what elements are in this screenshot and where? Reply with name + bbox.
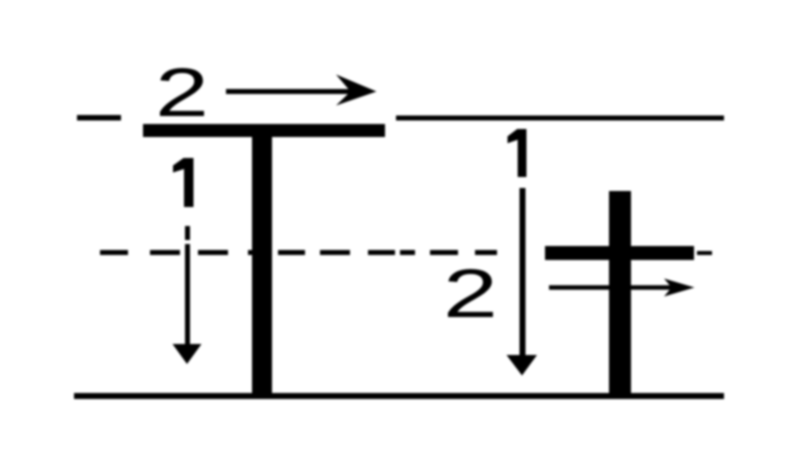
- top guideline left dash: [77, 115, 121, 121]
- stroke-1 arrow down (capital T): [173, 226, 202, 364]
- svg-text:2: 2: [443, 255, 498, 332]
- letter t crossbar: [545, 246, 694, 260]
- stroke-1 arrow down (small t): [507, 188, 538, 376]
- label 1 (small t stroke 1): [508, 129, 527, 177]
- middle dashed guideline: [100, 250, 712, 255]
- letter T stem: [252, 124, 272, 393]
- svg-text:2: 2: [155, 54, 209, 131]
- label 1 (capital T stroke 1): [173, 158, 194, 207]
- stroke-2 arrow right (capital T): [226, 75, 377, 106]
- letter t stem: [609, 191, 631, 394]
- stroke-2 arrow right (small t): [549, 279, 695, 297]
- bottom baseline: [74, 393, 724, 399]
- top guideline solid segment: [396, 116, 724, 121]
- letter T top bar: [143, 124, 385, 137]
